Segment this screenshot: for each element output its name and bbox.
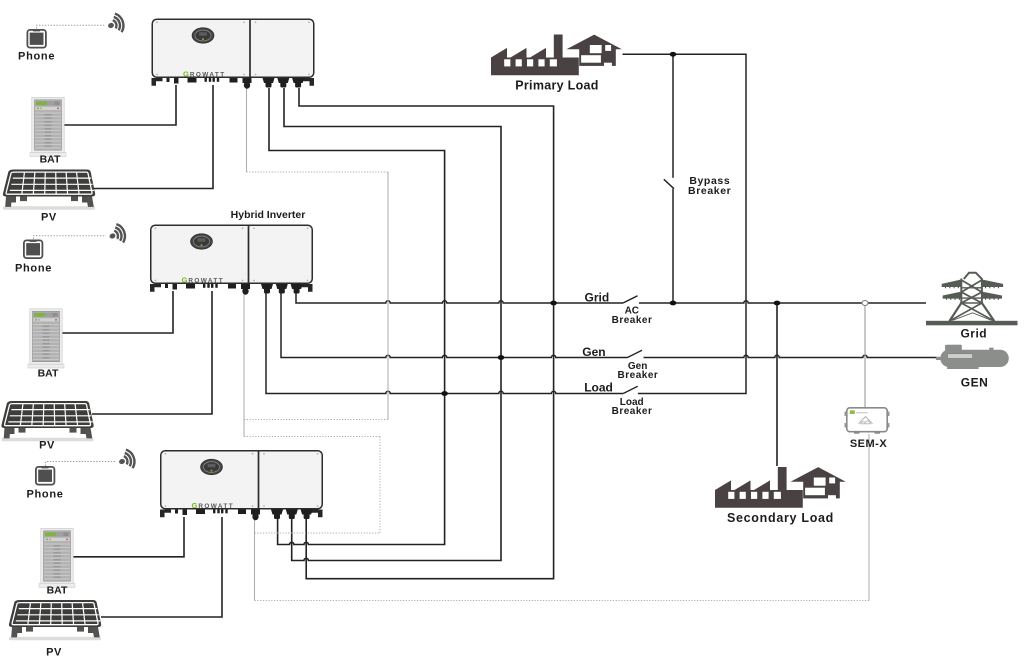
energy meter SEM-X: [845, 408, 890, 434]
svg-text:GEN: GEN: [961, 375, 989, 389]
wire Load bus right of Load breaker up to Primary Load: [623, 54, 747, 393]
wire PV1 to inverter INV1: [92, 85, 213, 189]
junction dot Grid bus x553: [550, 301, 557, 306]
battery rack BAT2: [28, 309, 64, 368]
svg-text:Hybrid Inverter: Hybrid Inverter: [231, 209, 306, 221]
svg-text:BAT: BAT: [38, 368, 59, 380]
svg-text:BAT: BAT: [47, 585, 68, 597]
svg-text:Breaker: Breaker: [612, 406, 653, 417]
svg-text:Grid: Grid: [585, 291, 610, 305]
wire Load bus from inverter INV2 to Load breaker: [266, 290, 623, 394]
svg-text:Phone: Phone: [26, 489, 63, 501]
junction dot Load bus x444: [441, 391, 448, 396]
wire AC phase run inverter INV1 to inverter INV3 via Gen bus tap: [284, 88, 501, 561]
junction dot Grid bus secondary load x777: [774, 301, 781, 306]
svg-text:Primary Load: Primary Load: [515, 79, 599, 93]
factory icon Primary Load: [491, 35, 622, 76]
wire Secondary Load drop from Grid bus: [776, 303, 778, 466]
phone P3: [36, 467, 55, 485]
inverter INV3: [160, 451, 323, 521]
wire dotted phone link row2: [34, 236, 107, 239]
wire comm link inverter INV2 vertical: [243, 291, 245, 437]
wire AC phase run inverter INV1 to inverter INV3 via Load bus tap: [269, 88, 445, 545]
wire AC phase run inverter INV1 to inverter INV3 via Grid bus tap: [299, 88, 554, 579]
inverter INV1: [152, 19, 315, 89]
svg-text:Grid: Grid: [960, 326, 987, 340]
wifi icon row2: [106, 223, 127, 247]
svg-text:Secondary Load: Secondary Load: [727, 511, 834, 525]
phone P1: [27, 30, 46, 48]
phone P2: [24, 240, 43, 258]
wire PV3 to inverter INV3: [101, 517, 222, 617]
wire Gen bus from inverter INV2 to generator: [281, 290, 628, 358]
PV array PV1: [3, 170, 95, 210]
breaker blade Load Breaker: [623, 386, 638, 393]
junction dot Primary Load line bypass top: [670, 52, 677, 57]
wire SEM-X sense tap to Grid bus: [864, 306, 866, 408]
svg-text:Gen: Gen: [582, 345, 605, 359]
svg-text:Breaker: Breaker: [612, 315, 653, 326]
svg-text:PV: PV: [41, 211, 57, 223]
wire comm dotted vertical at x380: [379, 437, 381, 534]
junction open circle SEM-X tap on Grid bus: [862, 301, 868, 306]
wire comm dotted bottom run at y600: [255, 600, 870, 602]
grid tower icon: [926, 273, 1018, 326]
svg-text:Breaker: Breaker: [618, 370, 659, 381]
svg-text:BAT: BAT: [40, 153, 61, 165]
wire Bypass Breaker lower segment: [672, 189, 674, 303]
wire BAT3 to inverter INV3: [70, 517, 184, 557]
svg-text:PV: PV: [39, 440, 55, 452]
PV array PV2: [1, 401, 93, 441]
wire PV2 to inverter INV2: [92, 291, 212, 414]
wire comm dotted run at y533: [255, 532, 381, 534]
wire Gen bus right of Gen breaker: [644, 355, 938, 357]
breaker blade AC Breaker: [623, 296, 638, 303]
svg-text:Phone: Phone: [18, 50, 55, 62]
wire BAT2 to inverter INV2: [61, 291, 173, 333]
PV array PV3: [9, 600, 101, 640]
junction dot Grid bus bypass x673: [670, 301, 677, 306]
wire Bypass Breaker upper segment: [672, 54, 674, 178]
junction dot Gen bus x501: [498, 355, 505, 360]
wire comm link inverter INV1 down: [246, 69, 248, 172]
svg-text:SEM-X: SEM-X: [850, 438, 888, 450]
wire dotted phone link row1: [37, 25, 106, 28]
wifi icon row1: [105, 12, 126, 36]
breaker blade Bypass Breaker: [664, 179, 674, 188]
inverter INV2 (Hybrid Inverter): [150, 225, 313, 295]
breaker blade Gen Breaker: [628, 350, 643, 357]
battery rack BAT3: [39, 528, 75, 587]
wire Grid bus from inverter INV2 to grid tower: [296, 290, 623, 303]
wire dotted phone link row3: [46, 462, 117, 467]
wire comm link inverter INV3 vertical: [254, 516, 256, 601]
wire Grid bus right of AC breaker: [639, 301, 926, 303]
wire comm vertical up to SEM-X bottom: [868, 434, 870, 601]
wifi icon row3: [116, 448, 137, 472]
generator icon GEN: [936, 345, 1009, 369]
wire comm dotted run left at y419: [244, 419, 388, 421]
svg-text:PV: PV: [46, 646, 62, 658]
wire BAT1 to inverter INV1: [64, 85, 176, 125]
battery rack BAT1: [30, 97, 66, 156]
wire comm dotted run right at y436: [244, 436, 380, 438]
svg-text:Phone: Phone: [15, 263, 52, 275]
svg-text:Load: Load: [584, 381, 613, 395]
factory icon Secondary Load: [715, 467, 846, 508]
wire comm vertical at x388: [387, 172, 389, 420]
wire comm dotted run right at y172: [247, 171, 389, 173]
svg-text:Breaker: Breaker: [688, 185, 731, 197]
